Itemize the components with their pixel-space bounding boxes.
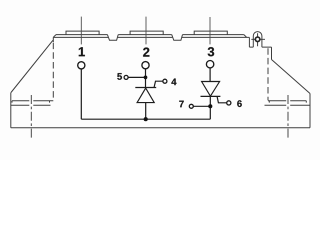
hidden edge dashed line left (52, 43, 54, 101)
right flange step vertical (248, 37, 250, 47)
thyristor Q2 cathode bar (201, 95, 221, 97)
right side vertical edge (309, 94, 311, 128)
right mounting hole center line (287, 95, 289, 140)
junction dot node 7 (208, 104, 212, 108)
terminal 6 small circle (227, 101, 231, 105)
left mounting hole center line (30, 95, 32, 140)
hidden edge dashed line right (267, 48, 269, 100)
wire gate terminal 6 (217, 97, 227, 103)
package top surface upper edge line (56, 34, 244, 36)
package top-right corner chamfer (244, 35, 247, 38)
wire terminal 2 down to thyristor 1 (145, 69, 147, 88)
terminal 7 small circle (189, 104, 193, 108)
package top surface lower edge line (53, 36, 249, 38)
screw hole cross hair (251, 33, 265, 46)
terminal 1 circle (78, 62, 85, 69)
left mounting slot lower line (11, 104, 51, 106)
right slanted face edge (272, 60, 311, 94)
terminal pad 2 raised block (130, 31, 163, 34)
right flange outer vertical edge (271, 47, 273, 59)
right mounting slot upper line (268, 101, 306, 103)
wire auxiliary cathode terminal 7 (193, 105, 210, 107)
terminal pad 3 raised block (194, 31, 227, 34)
wire common bus (81, 118, 210, 120)
terminal 3 pad center line (209, 17, 211, 44)
fastening lug outline (253, 32, 262, 47)
label terminal 1 (79, 47, 85, 56)
thyristor Q1 triangle (137, 88, 154, 103)
terminal 5 small circle (124, 75, 128, 79)
terminal 3 circle (206, 60, 213, 67)
junction dot node bus (144, 117, 148, 121)
junction dot node 5 (144, 76, 148, 80)
terminal 1 pad center line (80, 17, 82, 45)
wire thyristor 2 cathode to bus (209, 96, 211, 119)
screw hole ring (255, 37, 260, 42)
terminal 4 small circle (163, 79, 167, 83)
terminal pad 1 raised block (66, 31, 99, 34)
right flange top surface (249, 46, 271, 48)
package top groove between section 1 and 2 (107, 35, 118, 41)
thyristor Q1 cathode bar (135, 87, 156, 89)
right mounting slot lower line (265, 104, 311, 106)
package top groove between section 2 and 3 (172, 35, 183, 41)
left slanted face edge (11, 40, 53, 92)
wire terminal 3 down to thyristor 2 (209, 68, 211, 82)
label terminal 2 (143, 48, 149, 57)
wire gate terminal 5 (128, 76, 146, 78)
label terminal 7 (179, 101, 183, 108)
left corner short vertical edge (52, 37, 54, 42)
wire terminal 1 down (80, 69, 82, 119)
terminal 2 circle (142, 62, 149, 69)
package bottom edge (11, 127, 310, 129)
label terminal 5 (117, 73, 122, 80)
package top-left corner chamfer (53, 35, 56, 38)
terminal 2 pad center line (145, 17, 147, 45)
thyristor Q2 triangle (202, 82, 220, 97)
left side vertical edge (10, 93, 12, 128)
left mounting slot upper line (12, 101, 53, 103)
wire thyristor 1 anode to bus (145, 103, 147, 120)
wire gate terminal 4 (154, 81, 163, 87)
label terminal 3 (208, 47, 214, 56)
label terminal 4 (171, 79, 176, 86)
label terminal 6 (237, 100, 242, 107)
